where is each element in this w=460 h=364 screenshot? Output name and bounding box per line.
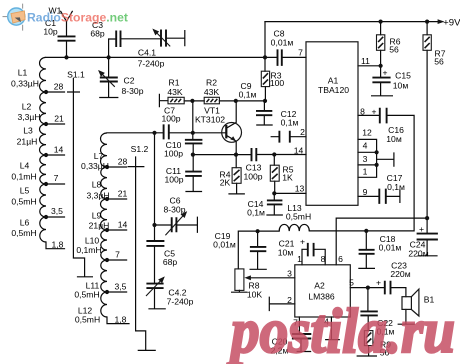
svg-text:0,1м: 0,1м xyxy=(281,118,299,128)
svg-text:L3: L3 xyxy=(23,126,33,136)
svg-text:68p: 68p xyxy=(163,257,178,267)
svg-text:1,8: 1,8 xyxy=(52,240,64,250)
svg-text:7: 7 xyxy=(298,48,303,58)
svg-text:100p: 100p xyxy=(243,172,262,182)
svg-text:1,8: 1,8 xyxy=(115,315,127,325)
svg-text:10м: 10м xyxy=(386,134,402,144)
svg-text:21µH: 21µH xyxy=(17,137,38,147)
svg-text:+: + xyxy=(371,107,376,117)
svg-text:3,3µH: 3,3µH xyxy=(86,191,109,201)
svg-text:9: 9 xyxy=(363,187,368,197)
svg-text:56: 56 xyxy=(434,57,444,67)
svg-text:+: + xyxy=(382,68,387,78)
svg-text:L10: L10 xyxy=(85,236,100,246)
svg-text:3,5: 3,5 xyxy=(115,282,127,292)
svg-text:0,33µH: 0,33µH xyxy=(81,161,109,171)
svg-text:11: 11 xyxy=(361,56,370,66)
svg-text:28: 28 xyxy=(118,157,128,167)
svg-text:4: 4 xyxy=(363,141,368,151)
svg-text:2: 2 xyxy=(300,127,305,137)
svg-text:C15: C15 xyxy=(395,71,411,81)
svg-text:0,1м: 0,1м xyxy=(247,208,265,218)
svg-text:14: 14 xyxy=(294,146,304,156)
svg-text:1: 1 xyxy=(363,167,368,177)
svg-text:100p: 100p xyxy=(161,114,180,124)
svg-text:21: 21 xyxy=(118,189,128,199)
svg-text:13: 13 xyxy=(295,184,305,194)
svg-text:68p: 68p xyxy=(90,29,105,39)
svg-text:10м: 10м xyxy=(278,248,294,258)
svg-text:10м: 10м xyxy=(393,81,409,91)
svg-text:+9V: +9V xyxy=(443,18,460,29)
svg-text:R2: R2 xyxy=(206,78,217,88)
svg-text:A1: A1 xyxy=(328,76,339,86)
svg-text:KT3102: KT3102 xyxy=(195,115,225,125)
svg-text:8-30p: 8-30p xyxy=(164,205,186,215)
svg-text:3: 3 xyxy=(363,154,368,164)
svg-text:0,5mH: 0,5mH xyxy=(11,228,36,238)
svg-text:100p: 100p xyxy=(164,149,183,159)
svg-text:0,5mH: 0,5mH xyxy=(74,290,99,300)
svg-text:14: 14 xyxy=(118,220,128,230)
svg-text:S1.2: S1.2 xyxy=(131,144,149,154)
svg-text:L5: L5 xyxy=(20,186,30,196)
svg-text:56: 56 xyxy=(389,45,399,55)
svg-text:0,33µH: 0,33µH xyxy=(11,79,39,89)
svg-text:7-240p: 7-240p xyxy=(167,297,194,307)
svg-text:43K: 43K xyxy=(204,87,220,97)
svg-text:+: + xyxy=(376,278,381,288)
svg-text:8: 8 xyxy=(321,254,326,264)
svg-text:S1.1: S1.1 xyxy=(67,70,85,80)
svg-text:0,01м: 0,01м xyxy=(271,38,294,48)
svg-text:L6: L6 xyxy=(20,218,30,228)
svg-text:postila.ru: postila.ru xyxy=(226,296,455,364)
svg-text:3,5: 3,5 xyxy=(51,206,63,216)
svg-text:0,1mH: 0,1mH xyxy=(11,172,36,182)
svg-text:14: 14 xyxy=(54,145,64,155)
svg-text:L4: L4 xyxy=(20,161,30,171)
svg-text:1: 1 xyxy=(297,254,302,264)
svg-text:TBA120: TBA120 xyxy=(318,85,349,95)
svg-text:2K: 2K xyxy=(220,178,231,188)
svg-text:L8: L8 xyxy=(92,180,102,190)
svg-text:0,5mH: 0,5mH xyxy=(286,212,311,222)
svg-text:C4.1: C4.1 xyxy=(138,48,156,58)
svg-text:3: 3 xyxy=(287,269,292,279)
svg-text:28: 28 xyxy=(54,82,64,92)
svg-text:8: 8 xyxy=(360,107,365,117)
svg-text:0,5mH: 0,5mH xyxy=(11,197,36,207)
svg-text:0,01м: 0,01м xyxy=(379,243,402,253)
svg-text:C2: C2 xyxy=(124,76,135,86)
svg-text:RadioStorage.net: RadioStorage.net xyxy=(27,11,128,25)
svg-text:L7: L7 xyxy=(94,151,104,161)
svg-text:220м: 220м xyxy=(390,269,410,279)
svg-text:7: 7 xyxy=(115,250,120,260)
svg-text:L1: L1 xyxy=(18,68,28,78)
svg-text:100p: 100p xyxy=(164,175,183,185)
svg-text:L2: L2 xyxy=(22,102,32,112)
svg-text:0,1м: 0,1м xyxy=(239,90,257,100)
svg-text:21: 21 xyxy=(54,114,64,124)
svg-text:0,5mH: 0,5mH xyxy=(75,315,100,325)
svg-text:10p: 10p xyxy=(43,27,58,37)
svg-text:5: 5 xyxy=(349,278,354,288)
svg-text:6: 6 xyxy=(338,254,343,264)
svg-text:21µH: 21µH xyxy=(89,221,110,231)
svg-text:1K: 1K xyxy=(282,173,293,183)
svg-text:3,3µH: 3,3µH xyxy=(17,112,40,122)
svg-text:0,1mH: 0,1mH xyxy=(76,245,101,255)
svg-text:+: + xyxy=(419,224,424,234)
svg-text:7: 7 xyxy=(54,173,59,183)
svg-text:L9: L9 xyxy=(92,211,102,221)
svg-text:R1: R1 xyxy=(169,78,180,88)
svg-text:A2: A2 xyxy=(314,281,325,291)
svg-text:0,01м: 0,01м xyxy=(213,240,236,250)
svg-text:8-30p: 8-30p xyxy=(122,86,144,96)
svg-text:+: + xyxy=(300,237,305,247)
svg-text:0,1м: 0,1м xyxy=(387,182,405,192)
svg-text:12: 12 xyxy=(362,128,372,138)
svg-text:7-240p: 7-240p xyxy=(138,59,165,69)
svg-text:43K: 43K xyxy=(167,87,183,97)
svg-text:100: 100 xyxy=(270,78,285,88)
svg-text:220м: 220м xyxy=(408,249,428,259)
